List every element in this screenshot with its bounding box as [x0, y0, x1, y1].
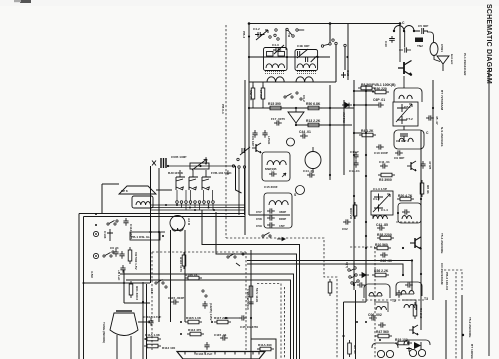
- svg-text:+12: +12: [150, 288, 154, 294]
- svg-text:R13 2.2K: R13 2.2K: [306, 119, 321, 123]
- svg-text:C6 d4: C6 d4: [110, 246, 119, 250]
- svg-text:+B 1uF: +B 1uF: [117, 270, 121, 281]
- svg-text:C11 .01: C11 .01: [379, 160, 390, 164]
- svg-text:R36 2.2K: R36 2.2K: [374, 269, 389, 273]
- svg-text:C110A 4.7uF: C110A 4.7uF: [143, 315, 161, 319]
- svg-text:C58: C58: [256, 217, 262, 221]
- svg-text:PB 0-4: PB 0-4: [221, 104, 225, 114]
- svg-text:C103: C103: [103, 231, 107, 239]
- svg-text:C45 10uF/50: C45 10uF/50: [240, 325, 258, 329]
- svg-text:R110 117V: R110 117V: [179, 257, 183, 273]
- svg-text:360P: 360P: [279, 210, 286, 214]
- svg-text:R2 5K: R2 5K: [353, 345, 357, 355]
- svg-text:C9-2: C9-2: [302, 95, 306, 102]
- svg-text:MW(1)B: MW(1)B: [265, 167, 277, 171]
- svg-text:R47 560: R47 560: [376, 330, 389, 334]
- svg-text:C15 300F: C15 300F: [264, 185, 278, 189]
- svg-text:N-S 2SC944S: N-S 2SC944S: [440, 127, 444, 146]
- svg-text:(10/25) 115V: (10/25) 115V: [209, 303, 213, 322]
- svg-text:800P: 800P: [279, 217, 286, 221]
- svg-text:R113 470: R113 470: [188, 328, 202, 332]
- svg-text:C44 .45: C44 .45: [303, 169, 314, 173]
- svg-text:FVB-101 500K: FVB-101 500K: [211, 171, 232, 175]
- svg-text:R38 2200: R38 2200: [377, 233, 392, 237]
- svg-text:R3 3900: R3 3900: [379, 178, 392, 182]
- svg-text:CT-1: CT-1: [404, 105, 411, 109]
- svg-text:R11A 390: R11A 390: [258, 343, 272, 347]
- svg-text:1-30F: 1-30F: [204, 157, 208, 165]
- svg-text:R11A 1.0K: R11A 1.0K: [145, 333, 161, 337]
- svg-text:C10 P: C10 P: [350, 150, 359, 154]
- svg-text:PB-1 OSL IAJ: PB-1 OSL IAJ: [131, 235, 151, 239]
- svg-text:47 R5: 47 R5: [428, 161, 432, 170]
- svg-text:C5 30P: C5 30P: [418, 24, 428, 28]
- svg-text:T2: T2: [392, 299, 396, 303]
- svg-text:C1-2: C1-2: [373, 197, 380, 201]
- svg-text:F17 .0075: F17 .0075: [271, 117, 285, 121]
- svg-text:VR 500 1-5V: VR 500 1-5V: [134, 252, 138, 271]
- svg-text:C9 30P: C9 30P: [394, 156, 404, 160]
- svg-text:C4E 30P: C4E 30P: [297, 44, 309, 48]
- svg-text:PL1 2SK241GR: PL1 2SK241GR: [463, 53, 467, 76]
- svg-text:TUNE (WORK): TUNE (WORK): [102, 322, 106, 343]
- svg-text:PB-2 100-C6: PB-2 100-C6: [445, 272, 449, 290]
- svg-text:R11B 1.0K: R11B 1.0K: [186, 316, 202, 320]
- svg-text:BJC1150K: BJC1150K: [168, 171, 184, 175]
- svg-text:R03 VR: R03 VR: [349, 208, 353, 220]
- svg-text:R50 6.8K: R50 6.8K: [306, 102, 321, 106]
- svg-text:C(T): C(T): [345, 262, 349, 268]
- svg-text:R10B 1K: R10B 1K: [185, 273, 198, 277]
- svg-text:C40: C40: [384, 41, 388, 47]
- svg-text:C115 .004P: C115 .004P: [168, 296, 184, 300]
- svg-text:R6 3K0: R6 3K0: [419, 308, 423, 319]
- svg-text:C115 .04: C115 .04: [214, 333, 227, 337]
- svg-text:BT 100SRA-T: BT 100SRA-T: [470, 344, 474, 359]
- svg-text:R30 220: R30 220: [374, 87, 387, 91]
- svg-text:15P: 15P: [279, 224, 285, 228]
- svg-text:R20 4.7K: R20 4.7K: [398, 194, 413, 198]
- svg-text:BT 727/98A/M: BT 727/98A/M: [440, 90, 444, 111]
- svg-text:R15 390: R15 390: [268, 102, 281, 106]
- svg-text:C06 .002: C06 .002: [368, 313, 382, 317]
- svg-text:AM 992: AM 992: [342, 112, 346, 123]
- svg-text:C62: C62: [342, 227, 348, 231]
- svg-text:R61 30C3: R61 30C3: [135, 286, 139, 300]
- svg-text:C1-3 1.5P: C1-3 1.5P: [373, 187, 387, 191]
- svg-text:C4-3: C4-3: [272, 43, 279, 47]
- svg-text:LPAD: LPAD: [267, 136, 271, 145]
- svg-text:CO 2SC930AM: CO 2SC930AM: [440, 263, 444, 285]
- svg-text:C5R1: C5R1: [440, 44, 444, 52]
- svg-text:R8 4K: R8 4K: [426, 185, 430, 195]
- svg-text:C44 .01: C44 .01: [299, 130, 311, 134]
- svg-text:R10 560: R10 560: [375, 243, 388, 247]
- svg-text:R8 560: R8 560: [361, 83, 372, 87]
- svg-text:C1B: C1B: [346, 70, 350, 77]
- svg-text:SCHEMATIC DIAGRAM: SCHEMATIC DIAGRAM: [485, 4, 492, 84]
- svg-text:50 V 111K: 50 V 111K: [255, 288, 259, 303]
- svg-text:SP 8: SP 8: [121, 189, 128, 193]
- svg-text:C104 4.7uF: C104 4.7uF: [196, 352, 212, 356]
- svg-text:TN2: TN2: [417, 44, 423, 48]
- svg-text:C005 130P: C005 130P: [171, 155, 186, 159]
- svg-text:PB-3: PB-3: [242, 31, 246, 38]
- svg-text:C4-2: C4-2: [253, 27, 260, 31]
- svg-text:45 .47: 45 .47: [435, 116, 439, 125]
- svg-text:CT-2: CT-2: [406, 117, 413, 121]
- svg-text:T5-4 2SC930E: T5-4 2SC930E: [440, 233, 444, 253]
- svg-text:C9 10P: C9 10P: [251, 136, 255, 146]
- svg-text:T3: T3: [424, 297, 428, 301]
- svg-text:C59: C59: [256, 224, 262, 228]
- svg-text:MW RF: MW RF: [249, 90, 253, 101]
- svg-text:C41 .85: C41 .85: [376, 223, 388, 227]
- svg-text:C13-C1: C13-C1: [349, 169, 360, 173]
- svg-text:C10 100P: C10 100P: [374, 151, 388, 155]
- svg-text:R112 100: R112 100: [162, 346, 176, 350]
- svg-text:R19 100: R19 100: [395, 338, 408, 342]
- svg-text:1 W(AW) R113: 1 W(AW) R113: [246, 289, 250, 310]
- svg-text:C6P .01: C6P .01: [373, 98, 385, 102]
- svg-text:C6 30P: C6 30P: [396, 139, 406, 143]
- svg-text:LT RF: LT RF: [259, 90, 263, 99]
- svg-text:A3 R: A3 R: [187, 218, 191, 226]
- svg-text:T5-2 2SC930E: T5-2 2SC930E: [468, 317, 472, 337]
- svg-text:C57: C57: [256, 210, 262, 214]
- svg-text:3-5R: 3-5R: [90, 271, 94, 278]
- svg-text:Ext ant: Ext ant: [450, 54, 454, 64]
- svg-text:R4 1.2K: R4 1.2K: [361, 129, 374, 133]
- svg-text:C1-4: C1-4: [381, 208, 388, 212]
